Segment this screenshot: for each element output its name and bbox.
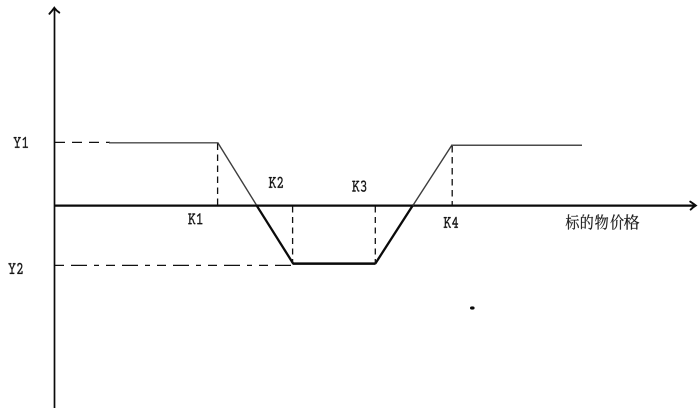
payoff descending bold segment (below axis) — [256, 205, 293, 264]
x-axis — [55, 205, 695, 207]
label Y1 — [14, 137, 28, 148]
y-axis arrowhead — [49, 8, 59, 14]
stray ink dot — [470, 306, 475, 309]
payoff descending thin segment (above axis) — [218, 142, 257, 205]
payoff bottom plateau bold (Y2 level) — [293, 262, 376, 265]
K2 dashed vertical — [292, 207, 294, 264]
payoff ascending bold segment (below axis) — [375, 205, 413, 264]
label Y2 — [8, 263, 22, 274]
payoff left plateau (Y1 level) — [109, 142, 218, 144]
x-axis arrowhead — [690, 202, 696, 210]
label K4 — [444, 217, 458, 228]
char 价 — [610, 214, 623, 229]
label K2 — [269, 177, 283, 188]
char 的 — [581, 214, 593, 229]
K4 dashed vertical — [451, 146, 453, 205]
Y2 dash-dot guide from y-axis — [55, 264, 293, 266]
Y1 dashed guide from y-axis — [55, 141, 110, 143]
payoff right plateau — [452, 144, 582, 146]
x-axis title 标的物价格 (drawn as embedded glyph outlines) — [566, 214, 639, 229]
payoff ascending thin segment (above axis) — [413, 145, 452, 206]
char 标 — [566, 214, 579, 229]
label K1 — [188, 213, 202, 224]
label K3 — [352, 181, 366, 192]
K3 dashed vertical — [374, 207, 376, 264]
y-axis — [54, 8, 56, 408]
char 格 — [624, 214, 639, 229]
char 物 — [595, 214, 608, 229]
K1 dashed vertical — [217, 144, 219, 206]
